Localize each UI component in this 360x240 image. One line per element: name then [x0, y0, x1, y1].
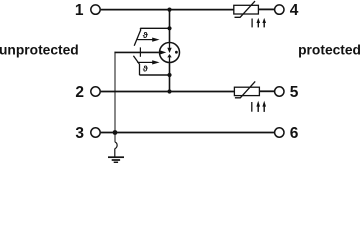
svg-text:3: 3	[75, 125, 84, 142]
svg-text:protected: protected	[298, 43, 360, 58]
arrester left electrode arrow	[160, 50, 167, 54]
wire line3 (terminal 3 to terminal 6)	[101, 132, 274, 134]
disconnect indicator line 1 bar	[251, 19, 253, 28]
svg-text:ϑ: ϑ	[143, 30, 148, 40]
thermal disconnect switch lower contact tick	[139, 52, 141, 56]
svg-text:ϑ: ϑ	[143, 64, 148, 74]
arrester trigger dot	[175, 51, 178, 54]
node at upper switch branch	[167, 26, 171, 30]
wire main vertical lower (arrester bottom to line2)	[169, 63, 171, 92]
node on line2 at main vertical	[167, 89, 171, 93]
disconnect indicator line 2 bar	[251, 102, 253, 112]
gas discharge arrester circle	[160, 43, 180, 63]
disconnect indicator line 2 arrows	[257, 105, 259, 112]
terminal 2 circle	[91, 87, 100, 96]
ground symbol	[108, 156, 124, 158]
terminal 1 circle	[91, 5, 100, 14]
wire line2 right segment (varistor to terminal 5)	[259, 90, 274, 92]
terminal 5 circle	[275, 87, 284, 96]
wire line1 left segment (terminal 1 to varistor)	[101, 9, 234, 11]
varistor on line 1-4 body	[234, 5, 259, 14]
svg-text:6: 6	[290, 125, 299, 142]
svg-text:4: 4	[290, 2, 299, 19]
disconnect indicator line 1 arrows	[257, 22, 259, 28]
thermal disconnect switch upper contact tick	[139, 47, 141, 52]
varistor on line 1-4 diagonal	[235, 1, 256, 17]
actuation arrow lower	[137, 61, 152, 63]
wire ground lead	[114, 149, 116, 157]
wire lower switch branch	[139, 74, 169, 76]
terminal 6 circle	[275, 128, 284, 137]
wire line2 left segment (terminal 2 to varistor)	[101, 91, 235, 93]
thermal disconnect switch upper blade	[134, 28, 141, 46]
node on line3 at ground vertical	[113, 130, 118, 135]
thermal disconnect switch lower blade	[133, 56, 139, 75]
arrester bottom electrode arrow	[169, 57, 171, 63]
arrester top electrode arrow	[169, 42, 171, 48]
varistor on line 2-5 diagonal	[235, 81, 255, 97]
actuation arrow upper	[137, 39, 152, 41]
svg-text:2: 2	[75, 84, 84, 101]
wire line1 right segment (varistor to terminal 4)	[258, 8, 274, 10]
svg-text:1: 1	[75, 2, 84, 19]
svg-text:5: 5	[290, 84, 299, 101]
terminal 3 circle	[91, 128, 100, 137]
wire ground vertical	[114, 52, 116, 142]
terminal 4 circle	[275, 5, 284, 14]
node at lower switch branch	[167, 73, 171, 77]
varistor on line 2-5 body	[234, 87, 259, 95]
node on line1 at main vertical	[167, 8, 171, 12]
wire flexible s-bend	[115, 142, 117, 149]
wire main vertical upper (line1 to arrester top)	[169, 10, 171, 42]
wire middle electrode line	[114, 51, 158, 53]
svg-text:unprotected: unprotected	[0, 43, 79, 58]
wire upper switch branch	[140, 27, 169, 29]
